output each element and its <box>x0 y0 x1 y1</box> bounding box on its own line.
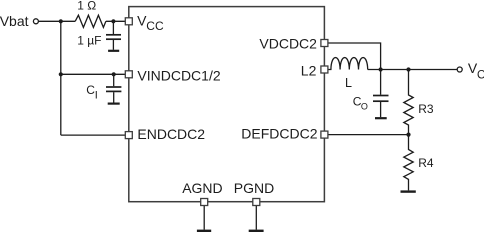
wire rail to ENDCDC2 pin <box>61 134 126 136</box>
ground below R4 <box>401 190 416 192</box>
wire DEFDCDC2 to R3/R4 junction <box>328 134 409 136</box>
wire L to VO <box>368 69 457 71</box>
pin VDCDC2 square <box>321 40 328 47</box>
IC U1 body <box>129 7 325 202</box>
pin AGND square <box>201 199 208 206</box>
pin VCC square <box>125 18 132 25</box>
svg-text:CC: CC <box>146 19 164 33</box>
svg-text:DEFDCDC2: DEFDCDC2 <box>241 125 317 141</box>
pin VINDCDC1/2 square <box>125 71 132 78</box>
svg-text:L2: L2 <box>301 63 317 79</box>
svg-text:R3: R3 <box>418 102 434 116</box>
junction dots right <box>379 67 383 71</box>
wire Vbat to R1 <box>39 20 76 22</box>
svg-text:1 Ω: 1 Ω <box>77 0 96 12</box>
wire AGND stem <box>203 205 205 229</box>
node VO terminal <box>457 67 462 72</box>
capacitor C2 (1 uF) <box>106 21 121 51</box>
svg-text:Vbat: Vbat <box>0 13 29 29</box>
resistor R3 <box>404 70 413 135</box>
wire PGND stem <box>255 205 257 229</box>
capacitor CI <box>106 74 121 103</box>
svg-text:O: O <box>361 101 368 111</box>
svg-text:R4: R4 <box>418 156 434 170</box>
svg-text:VINDCDC1/2: VINDCDC1/2 <box>137 67 220 83</box>
resistor R4 <box>404 135 413 191</box>
pin DEFDCDC2 square <box>321 131 328 138</box>
svg-text:AGND: AGND <box>182 180 222 196</box>
inductor L <box>328 58 368 70</box>
pin PGND square <box>253 199 260 206</box>
svg-text:VDCDC2: VDCDC2 <box>259 36 317 52</box>
wire R1 to VCC pin <box>106 20 125 22</box>
resistor R1 (1 ohm) <box>75 15 106 27</box>
pin L2 square <box>321 66 328 73</box>
junction dots left <box>59 19 63 23</box>
svg-text:O: O <box>477 69 484 81</box>
svg-text:L: L <box>345 76 352 90</box>
capacitor CO <box>373 70 389 119</box>
svg-text:ENDCDC2: ENDCDC2 <box>137 126 205 142</box>
wire VDCDC2 to node A <box>328 43 381 70</box>
svg-text:1 µF: 1 µF <box>77 34 101 48</box>
svg-text:PGND: PGND <box>234 180 274 196</box>
wire left vertical rail <box>60 21 62 135</box>
wire rail to VINDCDC1/2 pin <box>61 73 126 75</box>
node Vbat terminal <box>33 19 38 24</box>
pin ENDCDC2 square <box>125 132 132 139</box>
ground PGND <box>249 230 264 232</box>
svg-text:I: I <box>95 89 98 101</box>
ground AGND <box>197 230 211 232</box>
